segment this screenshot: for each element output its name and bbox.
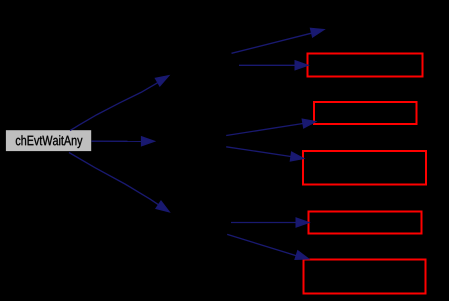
node box4 (red, truncated) [309, 212, 422, 234]
wire E2 chEvtWaitAny to middle hidden node [92, 140, 142, 142]
wire E1 chEvtWaitAny to upper hidden node [70, 83, 158, 131]
wire E6 middle hidden node to box2 [226, 124, 303, 136]
node box5 (red, truncated) [304, 260, 426, 294]
wire E4 upper hidden node to offscreen node [232, 33, 312, 53]
wire E7 middle hidden node to box3 [226, 147, 291, 157]
node box3 (red, truncated) [303, 151, 426, 185]
wire E5 upper hidden node to box1 [239, 64, 295, 66]
node chEvtWaitAny (current function, grey) [6, 130, 91, 151]
node box1 (red, truncated) [308, 54, 423, 77]
node box2 (red, truncated) [314, 102, 417, 124]
wire E8 lower hidden node to box4 [231, 222, 296, 224]
wire E9 lower hidden node to box5 [227, 234, 296, 255]
wire E3 chEvtWaitAny to lower hidden node [69, 153, 158, 205]
